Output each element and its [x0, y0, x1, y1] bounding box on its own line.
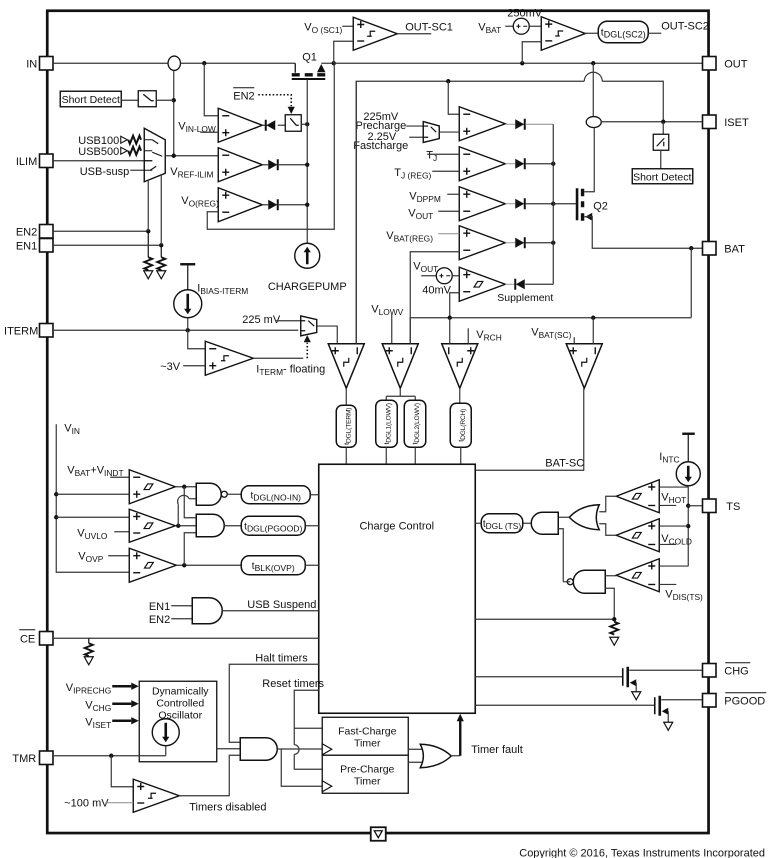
block Dynamically Controlled Oscillator — [139, 681, 217, 762]
wire LOWV comp split — [399, 388, 401, 396]
wire TMR to comparator — [111, 756, 133, 787]
comparator OUT-SC2 — [541, 17, 585, 51]
block Pre-Charge Timer — [322, 755, 408, 793]
diode VREF output — [262, 164, 268, 166]
node Q1-OUT junction — [332, 61, 336, 65]
svg-text:CHG: CHG — [724, 665, 748, 677]
ground PGOOD — [664, 722, 673, 730]
current sense bubble on IN rail — [168, 56, 180, 70]
wire SC2 output — [585, 32, 598, 34]
wire USB Suspend — [222, 610, 319, 612]
node IBIAS tap — [186, 328, 190, 332]
switch EN2 disconnect — [285, 115, 301, 132]
mux ILIM selector — [144, 128, 165, 182]
wire DCO source stub — [165, 746, 167, 756]
ground CHG — [632, 692, 641, 700]
svg-text:VREF-ILIM: VREF-ILIM — [170, 166, 213, 180]
node bus VOREG — [305, 203, 309, 207]
wire VINDT comp output — [175, 486, 196, 488]
wire Reset timers — [294, 690, 319, 745]
bubble above Q2 — [586, 117, 601, 128]
current source IBIAS-ITERM — [174, 290, 202, 318]
pin OUT — [703, 57, 717, 71]
wire BAT-SC — [475, 388, 584, 470]
svg-text:VOUT: VOUT — [408, 207, 433, 221]
svg-text:Fastcharge: Fastcharge — [353, 140, 408, 152]
transistor Q1 — [294, 63, 296, 73]
wire VO(REG) feedback to OUT node — [207, 63, 334, 229]
wire VHOT to OR — [599, 496, 616, 512]
svg-text:Timer: Timer — [354, 775, 381, 787]
pin TMR — [40, 751, 54, 765]
wire EN1 to mux — [160, 175, 162, 246]
box tDGL2(LOWV) — [404, 400, 426, 447]
wire AND timer output — [277, 748, 322, 750]
node TS pulldown — [612, 617, 616, 621]
node mux-output — [172, 154, 176, 158]
svg-text:Halt timers: Halt timers — [255, 652, 308, 664]
node OVP branch — [182, 563, 186, 567]
comparator Supplement — [459, 267, 505, 301]
wire CHG source — [635, 683, 637, 692]
thermal pad — [371, 827, 386, 841]
svg-text:OUT: OUT — [724, 58, 748, 70]
svg-text:VISET: VISET — [85, 716, 111, 730]
wire ILIM to mux — [53, 160, 152, 162]
svg-text:Timers disabled: Timers disabled — [189, 801, 266, 813]
wire VCOLD to OR — [599, 524, 616, 536]
box tDGL(PGOOD) — [241, 516, 305, 535]
wire Q2 source to BAT — [584, 217, 702, 249]
wire switch to node — [156, 99, 174, 101]
svg-text:225 mV: 225 mV — [242, 314, 281, 326]
comparator VREF-ILIM — [218, 148, 262, 182]
wire VHOT plus — [659, 486, 688, 488]
rail IBIAS top bar — [180, 263, 195, 265]
node TMR comparator tap — [109, 754, 113, 758]
svg-text:VBAT: VBAT — [478, 21, 501, 35]
comparator VCOLD — [616, 519, 659, 552]
svg-text:TJ: TJ — [426, 149, 437, 163]
switch ISET short-detect — [653, 134, 669, 150]
box tDGL(TERM) — [336, 405, 356, 447]
svg-text:VCHG: VCHG — [85, 699, 111, 713]
diode supplement — [505, 283, 514, 285]
svg-text:Timer: Timer — [354, 737, 381, 749]
wire bubble to ISET pin — [601, 121, 702, 123]
wire ISET to switch — [662, 122, 664, 135]
diode bank3 — [505, 203, 515, 205]
node bus VREF — [305, 163, 309, 167]
node BAT junction — [689, 246, 693, 250]
wire EN2 to mux — [147, 180, 149, 232]
node rail BAT-SC tap — [591, 316, 595, 320]
svg-text:Fast-Charge: Fast-Charge — [338, 725, 397, 737]
wire bubble to Q1 — [180, 62, 295, 64]
label EN2-bar dotted control — [233, 87, 254, 89]
source VBAT+250mV — [513, 18, 529, 34]
svg-text:ILIM: ILIM — [16, 156, 37, 168]
wire CE line — [53, 637, 319, 639]
svg-text:VO (SC1): VO (SC1) — [304, 21, 342, 35]
gate AND timer — [240, 738, 277, 761]
svg-text:ISET: ISET — [724, 117, 749, 129]
svg-text:CHARGEPUMP: CHARGEPUMP — [268, 281, 347, 293]
wire IN rail to sense bubble — [53, 62, 168, 64]
pin ITERM — [40, 324, 54, 338]
box tDGL(SC2) — [598, 21, 648, 43]
gate AND pgood — [196, 514, 224, 537]
wire tap to bank — [448, 81, 459, 114]
comparator timers-disabled — [133, 779, 179, 812]
rail INTC bar — [682, 433, 695, 435]
wire NAND lower input — [605, 588, 614, 619]
svg-text:EN1: EN1 — [16, 240, 37, 252]
box Short Detect left — [60, 91, 121, 107]
node comparator-bank tap — [446, 79, 450, 83]
svg-text:Q2: Q2 — [593, 200, 608, 212]
svg-text:INTC: INTC — [659, 451, 679, 465]
wire AND to tDGL(TS) — [523, 522, 532, 524]
wire PGOOD box to charge control — [305, 525, 319, 527]
svg-text:OUT-SC2: OUT-SC2 — [661, 20, 709, 32]
wire IN tap to VIN-LOW — [202, 61, 206, 65]
wire PGOOD gate — [475, 704, 654, 706]
wire Q1 gate bus — [306, 80, 308, 244]
wire LOWV2 box to charge control — [414, 447, 416, 464]
transistor CHG driver — [622, 668, 624, 686]
wire VDIS to NAND — [605, 575, 616, 577]
source VOUT+40mV — [421, 275, 436, 277]
pin CHG — [703, 664, 717, 678]
wire PGOOD drain — [661, 699, 702, 701]
svg-text:Q1: Q1 — [302, 51, 317, 63]
comparator ITERM-floating — [205, 341, 253, 375]
wire RCH box to charge control — [460, 447, 462, 464]
comparator bank row 2 — [459, 147, 505, 181]
wire VBAT(REG) minus to rail — [410, 252, 459, 344]
wire short-detect to switch — [121, 99, 138, 101]
svg-text:USB Suspend: USB Suspend — [247, 599, 316, 611]
svg-text:VBAT(SC): VBAT(SC) — [531, 326, 571, 340]
wire OUT rail — [334, 62, 703, 64]
wire CHG drain — [629, 669, 702, 671]
wire SC1 minus — [334, 41, 354, 63]
svg-text:ITERM: ITERM — [4, 325, 38, 337]
comparator VBAT(SC) — [566, 344, 602, 389]
comparator bank row 4 — [459, 226, 505, 260]
box tDGL(NO-IN) — [241, 486, 310, 504]
wire diode bus — [552, 124, 554, 284]
mux precharge select — [423, 122, 439, 143]
wire switch to short detect box — [660, 150, 662, 169]
wire TERM ref input — [355, 81, 357, 344]
wire TERM comp to box — [345, 388, 347, 405]
transistor Q2 — [576, 188, 579, 220]
wire VCOLD plus — [659, 525, 688, 527]
box tDGL(TS) — [481, 514, 523, 533]
dotted ITERM-floating control — [306, 343, 308, 359]
comparator VO(REG) — [218, 188, 262, 222]
wire NAND to box — [227, 493, 241, 495]
svg-text:tDGL (TS): tDGL (TS) — [483, 519, 522, 531]
wire supplement minus — [450, 293, 460, 318]
svg-text:CE: CE — [20, 633, 35, 645]
node VIN tap2 — [54, 515, 58, 519]
svg-text:PGOOD: PGOOD — [724, 695, 765, 707]
svg-text:OUT-SC1: OUT-SC1 — [405, 21, 453, 33]
svg-text:Timer fault: Timer fault — [471, 744, 523, 756]
node SC2 tap — [520, 61, 524, 65]
wire mux output to VREF comparator — [165, 155, 218, 157]
wire CHG gate — [475, 676, 622, 678]
pin TS — [703, 499, 717, 513]
wire bubble down-leg — [173, 70, 175, 155]
svg-text:Short Detect: Short Detect — [62, 94, 120, 106]
svg-text:tDGL(NO-IN): tDGL(NO-IN) — [250, 490, 301, 502]
wire BAT to rail — [690, 248, 692, 318]
node OUT column tap — [591, 61, 595, 65]
svg-text:VRCH: VRCH — [476, 329, 502, 343]
comparator VBAT+VINDT — [129, 470, 175, 504]
diode bank4 — [505, 242, 515, 244]
gate OR ts — [569, 505, 599, 530]
svg-text:USB-susp: USB-susp — [80, 166, 130, 178]
wire BLK box to charge control — [305, 564, 319, 566]
svg-text:Copyright © 2016, Texas Instru: Copyright © 2016, Texas Instruments Inco… — [519, 847, 765, 858]
node EN2 — [146, 229, 150, 233]
wire comparator to AND — [179, 755, 240, 796]
comparator VDIS(TS) — [616, 559, 659, 592]
wire EN2 — [53, 230, 148, 232]
svg-text:40mV: 40mV — [422, 284, 451, 296]
wire VINDT to AND — [184, 487, 196, 518]
svg-text:BAT-SC: BAT-SC — [545, 457, 584, 469]
comparator bank row 3 — [459, 187, 505, 221]
diode VO(REG) output — [262, 204, 268, 206]
comparator deglitch LOWV — [382, 344, 418, 389]
switch 225mV select — [301, 316, 317, 336]
switch left short-detect — [138, 91, 156, 107]
diode bank1 — [505, 123, 515, 125]
gate AND ts — [531, 512, 558, 534]
svg-text:Controlled: Controlled — [156, 697, 204, 709]
resistor EN1 pulldown — [160, 245, 162, 257]
wire EN1 — [53, 244, 161, 246]
wire pre timer to OR — [408, 761, 424, 763]
wire IBIAS to ITERM line — [187, 318, 189, 331]
svg-text:Charge Control: Charge Control — [359, 520, 434, 532]
svg-text:VOVP: VOVP — [78, 550, 103, 564]
wire OVP comp output — [176, 564, 241, 566]
svg-text:TS: TS — [726, 501, 740, 513]
pin BAT — [703, 242, 717, 256]
svg-text:Dynamically: Dynamically — [152, 685, 209, 697]
svg-text:EN1: EN1 — [149, 601, 170, 613]
wire TS column — [687, 486, 689, 567]
svg-text:TMR: TMR — [12, 753, 36, 765]
svg-text:VBAT(REG): VBAT(REG) — [386, 230, 433, 244]
box tDGL(RCH) — [450, 403, 471, 447]
resistor TS pulldown — [610, 622, 618, 635]
comparator VUVLO — [129, 509, 175, 542]
block Charge Control — [319, 464, 476, 713]
svg-text:VUVLO: VUVLO — [77, 527, 108, 541]
transistor PGOOD driver — [654, 697, 656, 714]
wire OVP to AND — [184, 533, 196, 566]
pin ILIM — [40, 154, 54, 168]
svg-text:VO(REG): VO(REG) — [181, 195, 219, 209]
comparator deglitch RCH — [442, 344, 478, 389]
svg-text:USB500: USB500 — [78, 146, 119, 158]
node bus VBATREG — [551, 241, 555, 245]
node ISET junction — [661, 120, 665, 124]
current source CHARGEPUMP — [295, 243, 320, 268]
wire source to SC2 plus — [529, 25, 541, 27]
wire NO-IN box to charge control — [310, 494, 319, 496]
wire PGOOD source — [667, 711, 669, 722]
svg-text:EN2: EN2 — [16, 226, 37, 238]
svg-text:BAT: BAT — [724, 243, 745, 255]
svg-text:VDPPM: VDPPM — [409, 190, 441, 204]
wire ITERM line — [53, 329, 298, 331]
pin IN — [40, 57, 54, 71]
current source INTC — [676, 462, 700, 486]
comparator deglitch TERM — [328, 344, 364, 389]
wire Q2 drain — [584, 127, 594, 192]
comparator bank row 1 — [459, 107, 505, 141]
wire TS to pin — [688, 505, 702, 507]
wire SC2 minus — [522, 42, 541, 64]
wire RCH comp to box — [459, 388, 461, 403]
gate AND usb-suspend — [192, 598, 222, 624]
pin EN1 — [40, 239, 54, 253]
wire LOWV1 box to charge control — [385, 447, 387, 464]
pin CE — [40, 632, 54, 646]
wire AND lower input — [558, 529, 563, 582]
pin ISET — [703, 115, 717, 129]
resistor CE pulldown — [88, 638, 90, 643]
comparator VIN-LOW — [218, 108, 262, 142]
gate OR timer-fault — [420, 744, 451, 768]
wire RCH bat input — [449, 318, 451, 344]
wire mux to bank1 — [439, 131, 459, 133]
current source DCO — [152, 719, 179, 746]
box tDGL1(LOWV) — [376, 400, 398, 447]
svg-text:VDIS(TS): VDIS(TS) — [665, 588, 703, 602]
wire TMR line — [53, 755, 166, 757]
wire Q1 to OUT rail — [321, 62, 334, 64]
gate NAND no-in — [196, 483, 221, 505]
svg-text:250mV: 250mV — [507, 7, 543, 19]
svg-text:tBLK(OVP): tBLK(OVP) — [252, 561, 295, 573]
svg-text:VIN: VIN — [64, 422, 80, 436]
comparator VHOT — [616, 480, 659, 513]
svg-text:~3V: ~3V — [160, 361, 181, 373]
node gate bus top — [305, 122, 309, 126]
node VIN tap1 — [54, 492, 58, 496]
svg-text:IN: IN — [26, 58, 37, 70]
wire tDGL(TS) to charge control — [475, 522, 481, 524]
wire switch to gate bus — [301, 123, 307, 125]
svg-text:VHOT: VHOT — [661, 491, 686, 505]
node EN1 — [159, 243, 163, 247]
svg-text:EN2: EN2 — [149, 614, 170, 626]
node VINDT branch — [182, 485, 186, 489]
block Fast-Charge Timer — [322, 717, 408, 755]
comparator VOVP — [129, 548, 176, 582]
resistor EN2 pulldown — [147, 231, 149, 257]
wire AND to box — [224, 525, 241, 527]
svg-text:Pre-Charge: Pre-Charge — [340, 763, 394, 775]
svg-text:ITERM- floating: ITERM- floating — [256, 363, 325, 377]
svg-text:VLOWV: VLOWV — [371, 303, 403, 317]
svg-text:VOUT: VOUT — [413, 260, 438, 274]
wire ISET sense path — [356, 81, 584, 344]
svg-text:Short Detect: Short Detect — [633, 171, 691, 183]
svg-text:tDGL(PGOOD): tDGL(PGOOD) — [244, 521, 302, 533]
wire Halt timers — [229, 664, 319, 742]
wire fast timer to OR — [408, 748, 424, 750]
wire bus to Q2 gate — [553, 203, 576, 205]
node UVLO branch — [176, 524, 180, 528]
svg-text:EN2: EN2 — [233, 90, 254, 102]
svg-text:IBIAS-ITERM: IBIAS-ITERM — [197, 282, 248, 296]
wire ITERM to 3V comparator — [188, 330, 206, 349]
svg-text:Reset timers: Reset timers — [262, 678, 324, 690]
wire SC1 output — [397, 33, 431, 35]
svg-text:~100 mV: ~100 mV — [64, 797, 109, 809]
node short-detect tap — [172, 98, 176, 102]
node bus TJ — [551, 162, 555, 166]
wire to precharge clock — [281, 749, 322, 786]
svg-text:Supplement: Supplement — [497, 292, 553, 304]
gate NAND ts — [573, 570, 605, 593]
node TS pin tap — [686, 504, 690, 508]
pin EN2 — [40, 225, 54, 239]
wire DCO to AND — [217, 748, 241, 750]
wire Reset to fast timer — [294, 727, 322, 729]
diode bank2 — [505, 163, 515, 165]
wire battery rail — [410, 317, 691, 319]
wire TERM box to charge control — [345, 447, 347, 464]
comparator OUT-SC1 — [353, 17, 397, 50]
node bus VDPPM — [551, 202, 555, 206]
node rail supplement tap — [448, 316, 452, 320]
wire to VINDT plus — [56, 493, 129, 495]
wire 3V comparator output — [253, 357, 303, 359]
wire switch to TERM comparator — [317, 326, 338, 344]
wire VDIS plus — [659, 565, 688, 567]
wire tDGL(SC2) to OUT-SC2 — [648, 32, 661, 34]
wire SC bat input — [592, 318, 594, 344]
svg-text:TJ (REG): TJ (REG) — [394, 167, 431, 181]
svg-text:VBAT+VINDT: VBAT+VINDT — [67, 464, 123, 478]
pin PGOOD — [703, 694, 717, 708]
wire NAND output — [563, 581, 570, 583]
wire OUT node to bubble — [592, 63, 594, 116]
diode VIN-LOW output — [262, 124, 267, 126]
node TS cold tap — [686, 524, 690, 528]
wire UVLO comp output — [175, 525, 196, 527]
wire VIN rail — [56, 424, 129, 572]
wire charge control TS pulldown — [475, 618, 614, 620]
wire UVLO to NAND with hop — [177, 504, 179, 526]
box tBLK(OVP) — [241, 556, 305, 575]
wire LOWV bat input — [409, 318, 411, 344]
wire OR to AND — [558, 516, 569, 518]
box Short Detect right — [632, 169, 693, 184]
